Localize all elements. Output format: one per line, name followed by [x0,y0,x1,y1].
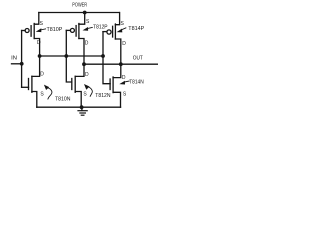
label T810P callout arrow [36,28,46,32]
svg-text:OUT: OUT [133,55,144,61]
transistor T810P [25,24,34,39]
transistor T812N [72,76,75,92]
wire T812N source to ground [75,92,81,108]
wire ground bus [37,106,121,108]
wire T814P source to rail [115,13,119,25]
wire stage2 drain column [75,39,84,77]
wire B output bus to OUT [84,63,158,65]
wire stage2 gate vertical [66,30,72,82]
svg-text:T812N: T812N [95,93,110,99]
wire A stage1 out to stage2,3 gates [40,55,103,57]
wire T812P gate lead [66,29,70,31]
label T812P callout arrow [83,27,93,31]
wire stage3 drain column [113,39,121,78]
node wireA T812 gate dot [64,54,68,58]
transistor T810N [29,76,32,92]
node stage2 output dot on wire B [82,62,86,66]
svg-text:D: D [85,72,89,78]
svg-text:T814N: T814N [129,79,144,85]
label T814N callout arrow [119,81,129,85]
transistor T812P [70,24,79,39]
node ground junction dot [80,105,84,109]
wire T810P gate lead [22,30,26,32]
wire IN [12,63,22,65]
ground symbol [78,107,87,115]
svg-text:POWER: POWER [72,2,87,8]
node stage1 output dot [38,54,42,58]
wire stage3 gate vertical [103,32,110,84]
svg-text:T814P: T814P [128,26,144,32]
wire T812P source to rail [79,13,85,25]
node wireA T814 gate dot [101,54,105,58]
svg-text:IN: IN [11,55,17,61]
svg-text:D: D [122,75,126,81]
transistor T814P [107,24,116,39]
svg-text:D: D [40,72,44,78]
wire T810N source to ground [32,92,37,108]
wire T810N gate lead [22,86,29,88]
label T812N callout arrow [87,86,93,96]
svg-text:T812P: T812P [93,25,108,31]
label T810N arrowhead [44,85,49,90]
svg-text:T810P: T810P [47,27,63,33]
node T814 drain dot on wire B [119,62,123,66]
wire T814P gate lead [103,31,107,33]
node IN junction dot [20,62,24,66]
label T812N arrowhead [84,84,90,90]
wire T814N source to ground [113,92,120,107]
wire stage1 gate vertical [21,31,23,88]
svg-text:D: D [85,40,89,46]
power rail [39,12,120,14]
label T810N callout arrow [46,87,52,99]
wire T810P source to rail [34,13,39,25]
svg-text:T810N: T810N [55,97,71,103]
transistor T814N [110,77,113,93]
label T814P callout arrow [117,28,126,33]
wire stage1 drain column [32,39,40,77]
svg-text:D: D [122,41,126,47]
node power dot (T812P source junction) [83,11,87,15]
